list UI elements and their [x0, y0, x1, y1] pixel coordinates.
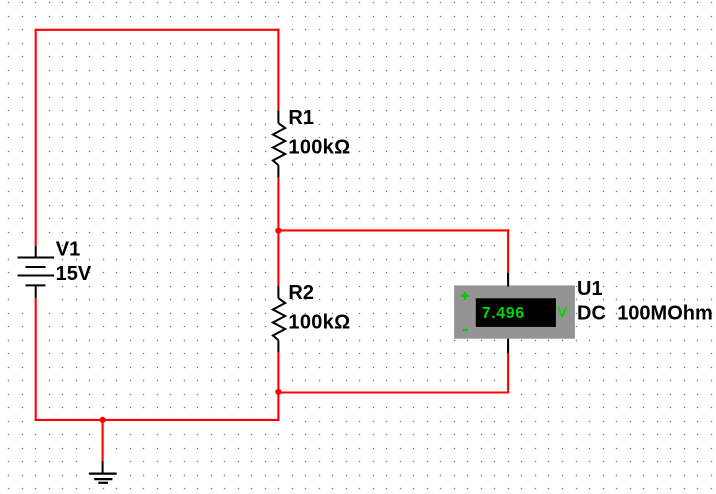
wire node B down to bottom rail	[277, 392, 279, 421]
svg-text:100kΩ: 100kΩ	[288, 136, 350, 158]
svg-text:100MOhm: 100MOhm	[617, 303, 713, 325]
wire meter bottom lead black	[507, 339, 509, 354]
wire R1 top vertical	[277, 29, 279, 111]
svg-text:DC: DC	[577, 303, 606, 325]
wire mid node to R2 top	[277, 231, 279, 286]
wire top horizontal	[35, 29, 280, 31]
node mid junction	[275, 228, 281, 234]
wire bottom horizontal	[35, 419, 280, 421]
svg-text:R1: R1	[288, 107, 314, 129]
multimeter U1 body	[454, 285, 575, 338]
node ground junction	[100, 417, 106, 423]
battery V1	[18, 246, 55, 298]
node B junction	[275, 389, 281, 395]
svg-text:15V: 15V	[56, 263, 92, 285]
multimeter minus terminal mark	[463, 329, 468, 331]
wire meter top vertical red	[507, 229, 509, 273]
multimeter plus terminal mark	[461, 292, 469, 300]
svg-text:V1: V1	[56, 238, 80, 260]
multimeter display	[476, 298, 556, 327]
ground	[89, 461, 117, 483]
wire meter bottom vertical red	[507, 353, 509, 393]
svg-text:R2: R2	[288, 282, 314, 304]
wire meter top lead black	[507, 273, 509, 287]
resistor R2	[273, 285, 285, 352]
wire R2 bottom to node B	[277, 353, 279, 392]
wire ground stub red	[102, 419, 104, 461]
resistor R1	[273, 110, 285, 177]
wire mid horizontal to meter	[278, 229, 509, 231]
wire R1 bottom to mid node	[277, 178, 279, 231]
wire left vertical upper	[35, 29, 37, 246]
wire bottom horizontal node B to meter	[277, 391, 509, 393]
svg-text:7.496: 7.496	[482, 305, 525, 322]
wire left vertical lower	[35, 298, 37, 421]
svg-text:U1: U1	[577, 278, 603, 300]
svg-text:100kΩ: 100kΩ	[288, 311, 350, 333]
svg-text:V: V	[557, 304, 567, 321]
